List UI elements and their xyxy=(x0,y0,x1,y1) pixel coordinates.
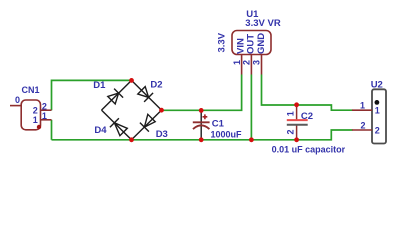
svg-text:1: 1 xyxy=(360,101,365,111)
svg-text:2: 2 xyxy=(375,125,380,135)
voltage regulator U1 body xyxy=(232,31,271,55)
wire: U1 pin2 OUT down to bottom rail xyxy=(250,75,252,140)
diode D4 (bridge bottom-left edge) xyxy=(102,110,132,140)
svg-text:2: 2 xyxy=(360,120,365,130)
wire: CN1 pin1 down to bottom rail xyxy=(51,120,53,140)
svg-text:C2: C2 xyxy=(301,111,313,122)
capacitor C2 bottom lead xyxy=(296,125,298,140)
junction dot C1 bottom xyxy=(199,137,204,142)
svg-text:U2: U2 xyxy=(371,80,383,91)
capacitor C1 plus sign xyxy=(203,114,208,119)
svg-text:3.3V: 3.3V xyxy=(217,32,228,52)
capacitor C1 bottom lead xyxy=(200,125,202,140)
diode D2 (bridge top-right edge) xyxy=(132,80,162,110)
CN1 pin 2 stub xyxy=(41,109,52,111)
wire top: CN1 pin2 up and right to bridge top vertex xyxy=(52,80,132,110)
U2 pin 1 stub xyxy=(352,109,372,111)
capacitor C1 top plate xyxy=(193,121,210,123)
svg-text:1: 1 xyxy=(232,60,242,65)
capacitor C2 top plate xyxy=(287,119,308,121)
svg-text:D1: D1 xyxy=(93,80,106,91)
U1 pin 3 lead xyxy=(261,55,263,75)
svg-text:1000uF: 1000uF xyxy=(211,130,243,140)
svg-text:1: 1 xyxy=(375,106,380,116)
junction dot C1 top xyxy=(199,108,204,113)
svg-text:D4: D4 xyxy=(94,125,107,136)
capacitor C1 bottom plate arc xyxy=(193,125,209,129)
diode D3 (bridge right-bottom edge) xyxy=(132,110,162,140)
diode D1 (bridge left-top edge) xyxy=(102,80,132,110)
svg-text:GND: GND xyxy=(256,33,267,54)
svg-text:1: 1 xyxy=(286,111,296,116)
junction dot C2 top xyxy=(294,102,299,107)
svg-text:1: 1 xyxy=(42,111,47,121)
svg-text:2: 2 xyxy=(242,60,252,65)
svg-text:CN1: CN1 xyxy=(22,85,40,95)
junction dot U1 OUT at rail xyxy=(249,137,254,142)
junction dot bridge right xyxy=(159,108,164,113)
connector CN1 body xyxy=(21,100,40,130)
svg-text:3: 3 xyxy=(252,60,262,65)
junction dot bridge top xyxy=(129,78,134,83)
wire mid: bridge right vertex to C1 junction to U1 VIN riser xyxy=(162,75,242,111)
svg-text:D2: D2 xyxy=(150,80,162,91)
U1 pin 1 lead xyxy=(241,55,243,75)
svg-text:2: 2 xyxy=(42,101,47,111)
CN1 pin 1 stub xyxy=(41,119,52,121)
junction dot bridge bottom xyxy=(129,137,134,142)
junction dot C2 bottom xyxy=(294,137,299,142)
svg-text:2: 2 xyxy=(286,129,296,134)
capacitor C1 top lead xyxy=(200,110,202,125)
connector U2 body xyxy=(372,89,386,143)
CN1 polarity dot xyxy=(37,125,41,129)
wire bottom rail: from CN1 drop to U2 pin2 jog xyxy=(52,130,353,140)
CN1 pin 0 stub xyxy=(10,105,21,107)
svg-text:1: 1 xyxy=(33,115,38,125)
svg-text:3.3V VR: 3.3V VR xyxy=(245,18,281,29)
svg-text:C1: C1 xyxy=(212,119,225,130)
U2 pin 1 marker dot xyxy=(375,100,380,105)
capacitor C2 top lead xyxy=(296,105,298,120)
U1 pin 2 lead xyxy=(250,55,252,75)
svg-text:0.01 uF capacitor: 0.01 uF capacitor xyxy=(272,144,346,154)
U2 pin 2 stub xyxy=(352,129,372,131)
wire: U1 pin3 GND right to C2 top and U2 pin1 xyxy=(262,75,353,111)
svg-text:D3: D3 xyxy=(156,129,168,140)
capacitor C2 bottom plate xyxy=(287,124,308,126)
svg-text:0: 0 xyxy=(15,95,20,105)
svg-text:2: 2 xyxy=(33,106,38,116)
